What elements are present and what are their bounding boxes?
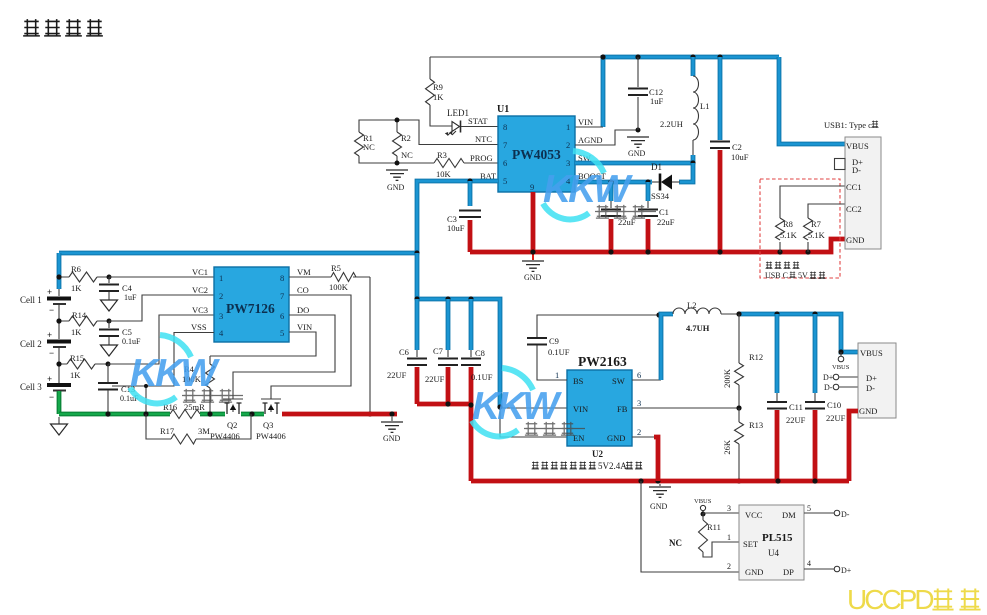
svg-text:C9: C9 <box>549 336 559 346</box>
svg-text:D-: D- <box>841 510 850 519</box>
svg-text:U2: U2 <box>592 449 603 459</box>
svg-text:0.1uF: 0.1uF <box>122 337 141 346</box>
svg-text:7: 7 <box>280 291 284 301</box>
svg-text:22UF: 22UF <box>387 370 407 380</box>
resistor R4 100K <box>209 356 211 414</box>
svg-text:Cell 2: Cell 2 <box>20 339 42 349</box>
svg-text:10uF: 10uF <box>731 152 749 162</box>
svg-text:8: 8 <box>280 273 284 283</box>
svg-text:3: 3 <box>566 158 570 168</box>
wire: LED to STAT pin <box>461 126 498 128</box>
svg-text:C1: C1 <box>659 207 669 217</box>
svg-text:VSS: VSS <box>191 322 207 332</box>
svg-text:1K: 1K <box>71 283 82 293</box>
svg-text:22uF: 22uF <box>657 217 675 227</box>
capacitor C9 0.1UF <box>537 345 567 380</box>
svg-text:1: 1 <box>219 273 223 283</box>
resistor R11 (NC) <box>702 513 704 520</box>
svg-text:R7: R7 <box>811 219 821 229</box>
capacitor C4 1uF <box>108 277 110 283</box>
svg-text:4: 4 <box>807 559 811 568</box>
svg-text:10K: 10K <box>436 169 452 179</box>
svg-text:SS34: SS34 <box>651 191 670 201</box>
svg-text:VBUS: VBUS <box>694 498 712 505</box>
capacitor 22uF (BOOST left) <box>609 182 614 201</box>
svg-text:5V2.4A: 5V2.4A <box>598 461 627 471</box>
wire: DO net to Q2 gate <box>233 315 335 399</box>
svg-text:VBUS: VBUS <box>860 348 883 358</box>
IC PW7126 <box>214 267 289 342</box>
capacitor C8 0.1UF <box>469 299 474 350</box>
svg-text:C8: C8 <box>475 348 485 358</box>
inductor L1 2.2UH <box>691 57 696 76</box>
svg-text:NC: NC <box>669 538 682 548</box>
svg-text:GND: GND <box>846 235 864 245</box>
ground under battery <box>58 417 60 424</box>
svg-text:D+: D+ <box>823 373 834 382</box>
svg-text:Cell 1: Cell 1 <box>20 295 42 305</box>
svg-text:8: 8 <box>503 122 507 132</box>
svg-text:1: 1 <box>727 533 731 542</box>
svg-text:PW7126: PW7126 <box>226 301 275 316</box>
wire: USB2 GND red <box>849 411 858 481</box>
svg-text:PROG: PROG <box>470 153 493 163</box>
transistor Q2 PW4406 <box>223 398 243 400</box>
svg-text:CO: CO <box>297 285 309 295</box>
svg-text:STAT: STAT <box>468 116 488 126</box>
transistor Q3 PW4406 <box>261 398 281 400</box>
wire: NTC net top rail <box>359 120 498 145</box>
ground under R1/R2 <box>386 170 408 180</box>
svg-text:PW2163: PW2163 <box>578 354 627 369</box>
svg-text:L1: L1 <box>700 101 709 111</box>
resistor R9 <box>430 57 452 126</box>
wire: DM out <box>804 512 834 514</box>
svg-text:R13: R13 <box>749 420 763 430</box>
svg-text:2.2UH: 2.2UH <box>660 119 683 129</box>
ground under U1 <box>532 252 534 260</box>
svg-text:−: − <box>49 305 54 315</box>
svg-text:DP: DP <box>783 567 794 577</box>
svg-text:Cell 3: Cell 3 <box>20 382 42 392</box>
svg-text:0.1UF: 0.1UF <box>471 372 493 382</box>
svg-text:GND: GND <box>650 502 668 511</box>
svg-text:R3: R3 <box>437 150 447 160</box>
svg-text:R11: R11 <box>707 522 721 532</box>
svg-text:NC: NC <box>401 150 413 160</box>
svg-text:C11: C11 <box>789 402 803 412</box>
svg-text:D+: D+ <box>841 566 852 575</box>
svg-text:NC: NC <box>363 142 375 152</box>
svg-text:6: 6 <box>280 311 284 321</box>
svg-text:VC1: VC1 <box>192 267 208 277</box>
wire: blue corner to USB1 VBUS <box>779 57 845 144</box>
resistor R8 5.1K <box>780 186 845 252</box>
wire: VC3 <box>108 315 214 364</box>
svg-text:22UF: 22UF <box>826 413 846 423</box>
svg-text:22UF: 22UF <box>425 374 445 384</box>
watermark KKW center <box>472 368 585 436</box>
svg-text:3: 3 <box>219 311 223 321</box>
svg-text:R6: R6 <box>71 264 81 274</box>
wire: battery minus green <box>57 391 62 414</box>
node: top rail junctions <box>600 54 605 59</box>
svg-text:5.1K: 5.1K <box>780 230 798 240</box>
capacitor C2 10uF <box>718 57 723 140</box>
wire: BAT blue from pin5 to battery rail <box>417 181 498 253</box>
svg-text:1K: 1K <box>70 370 81 380</box>
svg-text:GND: GND <box>524 273 542 282</box>
svg-text:+: + <box>47 330 52 340</box>
svg-text:VIN: VIN <box>297 322 312 332</box>
svg-text:1uF: 1uF <box>124 293 137 302</box>
wire: VSS net <box>112 333 214 387</box>
connector USB2 <box>858 343 896 418</box>
svg-text:1K: 1K <box>71 327 82 337</box>
svg-text:D-: D- <box>866 383 875 393</box>
svg-text:5: 5 <box>503 176 507 186</box>
svg-text:5: 5 <box>280 328 284 338</box>
communication resistor dashed box <box>760 179 840 278</box>
svg-text:R8: R8 <box>783 219 793 229</box>
svg-text:FB: FB <box>617 404 628 414</box>
wire: blue from BAT corner down to C6 rail <box>415 253 420 299</box>
svg-text:2: 2 <box>219 291 223 301</box>
ground on pack- red rail <box>391 417 393 421</box>
watermark KKW left <box>130 335 243 403</box>
svg-text:R12: R12 <box>749 352 763 362</box>
resistor R6 1K <box>59 276 109 278</box>
wire: blue drop from top rail to U1 VIN pin <box>601 55 606 127</box>
ground under U2 rail <box>659 484 661 486</box>
wire: top VIN rail thin segment from R9 to VIN node <box>430 56 603 58</box>
svg-text:C10: C10 <box>827 400 841 410</box>
wire: SW rail <box>575 161 693 166</box>
svg-text:EN: EN <box>573 433 584 443</box>
svg-text:9: 9 <box>530 182 534 192</box>
wire: U2 EN tie <box>500 408 567 437</box>
svg-text:2: 2 <box>566 140 570 150</box>
resistor R2 (NC) <box>393 132 402 156</box>
wire: bottom red GND rail <box>471 479 849 484</box>
capacitor C10 22UF <box>813 314 818 393</box>
wire: red rail after Q3 to GND <box>282 412 397 417</box>
svg-text:R2: R2 <box>401 133 411 143</box>
wire: DP out <box>804 568 834 570</box>
svg-text:LED1: LED1 <box>447 108 469 118</box>
capacitor C5 0.1uF <box>108 321 110 328</box>
svg-text:U4: U4 <box>768 548 779 558</box>
svg-text:+: + <box>47 287 52 297</box>
wire: VC2 <box>109 295 214 321</box>
wire: R3 to PROG <box>464 162 498 164</box>
svg-text:22UF: 22UF <box>786 415 806 425</box>
svg-text:3: 3 <box>637 398 641 408</box>
svg-text:GND: GND <box>383 434 401 443</box>
wire: U2 SW up to L2 <box>632 379 661 381</box>
svg-text:Q2: Q2 <box>227 420 237 430</box>
svg-text:+: + <box>47 374 52 384</box>
wire: VBAT blue rail to battery <box>59 251 417 256</box>
wire: U2 FB <box>632 407 739 409</box>
svg-text:D1: D1 <box>651 162 662 172</box>
svg-text:1K: 1K <box>433 92 444 102</box>
IC U4 PL515 <box>739 505 804 580</box>
resistor R14 1K <box>59 320 109 322</box>
svg-text:CC1: CC1 <box>846 182 862 192</box>
svg-text:7: 7 <box>503 140 507 150</box>
svg-text:10uF: 10uF <box>447 223 465 233</box>
wire: SW corner down to D1 anode <box>679 163 693 182</box>
svg-text:C5: C5 <box>122 327 132 337</box>
wire: green pack- rail <box>59 412 170 417</box>
svg-text:VC3: VC3 <box>192 305 208 315</box>
resistor R5 100K <box>289 276 370 278</box>
svg-text:GND: GND <box>745 567 763 577</box>
wire: CO net to Q3 gate <box>271 295 351 399</box>
svg-text:SET: SET <box>743 539 759 549</box>
svg-text:DM: DM <box>782 510 796 520</box>
wire: blue rail over C6/C7/C8 <box>417 299 500 407</box>
svg-text:U1: U1 <box>497 104 509 115</box>
svg-text:AGND: AGND <box>578 135 603 145</box>
svg-text:6: 6 <box>503 158 507 168</box>
ground AGND <box>627 137 649 147</box>
svg-text:GND: GND <box>607 433 625 443</box>
resistor R12 200K <box>738 314 740 408</box>
svg-text:5: 5 <box>807 504 811 513</box>
svg-text:R9: R9 <box>433 82 443 92</box>
svg-text:6: 6 <box>637 370 641 380</box>
svg-text:UCCPD: UCCPD <box>847 584 933 615</box>
svg-text:−: − <box>49 392 54 402</box>
svg-text:CC2: CC2 <box>846 204 862 214</box>
capacitor C3 <box>468 181 473 206</box>
wire: top VIN rail thick blue <box>603 55 779 60</box>
wire: VM net down to pack- rail <box>369 277 371 414</box>
svg-text:1: 1 <box>566 122 570 132</box>
wire: VBUS2 blue rail <box>739 314 858 352</box>
svg-text:3M: 3M <box>198 426 210 436</box>
svg-text:4.7UH: 4.7UH <box>686 323 710 333</box>
svg-text:1: 1 <box>555 370 559 380</box>
svg-text:VCC: VCC <box>745 510 763 520</box>
svg-text:PW4406: PW4406 <box>256 431 286 441</box>
caption 两节锂电池降压5V2.4A电路 <box>532 461 643 471</box>
resistor R17 3M <box>146 414 251 439</box>
svg-text:C7: C7 <box>433 346 443 356</box>
svg-text:2: 2 <box>727 562 731 571</box>
wire: VCC <box>703 512 739 514</box>
capacitor C6 22UF <box>415 299 420 350</box>
wire: U2 VIN <box>500 407 567 409</box>
svg-text:DO: DO <box>297 305 309 315</box>
svg-text:D-: D- <box>852 165 861 175</box>
svg-text:25mR: 25mR <box>184 402 205 412</box>
svg-text:100K: 100K <box>329 282 349 292</box>
svg-text:0.1UF: 0.1UF <box>548 347 570 357</box>
svg-text:VBUS: VBUS <box>832 364 850 371</box>
capacitor C13 0.1uF <box>107 364 109 382</box>
svg-text:VBUS: VBUS <box>846 141 869 151</box>
svg-text:VIN: VIN <box>573 404 588 414</box>
wire: U1 section red GND rail <box>470 239 845 252</box>
svg-text:R17: R17 <box>160 426 174 436</box>
wire: U2 GND drop <box>632 436 654 438</box>
resistor R1 (NC) <box>355 132 364 156</box>
capacitor C11 22UF <box>775 314 780 393</box>
wire: AGND to ground <box>575 130 638 145</box>
resistor R16 25mR <box>170 410 200 419</box>
svg-text:−: − <box>49 348 54 358</box>
D+/D- stub bracket <box>835 159 846 170</box>
svg-text:3: 3 <box>727 504 731 513</box>
wire: red joining C6/C7 into C8 drop <box>417 402 471 407</box>
svg-text:D+: D+ <box>866 373 877 383</box>
node: VIN/EN junction <box>497 404 502 409</box>
svg-text:5.1K: 5.1K <box>808 230 826 240</box>
wire: VC1 <box>109 276 214 278</box>
svg-text:USB C: USB C <box>765 271 788 280</box>
watermark KKW top <box>543 151 656 219</box>
capacitor C1 22uF <box>646 182 651 201</box>
svg-text:PL515: PL515 <box>762 532 793 544</box>
svg-text:GND: GND <box>859 406 877 416</box>
svg-text:VC2: VC2 <box>192 285 208 295</box>
capacitor C12 <box>637 57 639 130</box>
svg-text:C4: C4 <box>122 283 133 293</box>
svg-text:BS: BS <box>573 376 584 386</box>
svg-text:C2: C2 <box>732 142 742 152</box>
svg-text:C6: C6 <box>399 347 409 357</box>
title 附原理图 <box>23 19 103 36</box>
svg-text:R14: R14 <box>72 310 87 320</box>
wire: PL515 GND to rail <box>641 481 739 572</box>
svg-text:26K: 26K <box>722 439 732 455</box>
node: VBUS2 test point <box>840 352 842 356</box>
wire: U1 GND pin to red rail <box>531 192 536 252</box>
resistor R7 5.1K <box>808 204 845 252</box>
svg-text:VIN: VIN <box>578 117 593 127</box>
footer UCCPD forum <box>847 584 981 615</box>
svg-text:GND: GND <box>628 149 646 158</box>
wire: R1/R2 bottom rail to R3 <box>359 156 434 163</box>
svg-text:R5: R5 <box>331 263 341 273</box>
wire: BOOST rail <box>575 180 652 185</box>
svg-text:2: 2 <box>637 427 641 437</box>
svg-text:200K: 200K <box>722 368 732 388</box>
resistor R13 26K <box>738 408 740 481</box>
svg-text:R15: R15 <box>70 353 84 363</box>
resistor R15 1K <box>59 363 108 365</box>
svg-text:5V: 5V <box>798 271 808 280</box>
svg-text:VM: VM <box>297 267 311 277</box>
svg-text:GND: GND <box>387 183 405 192</box>
svg-text:NTC: NTC <box>475 134 492 144</box>
svg-text:Q3: Q3 <box>263 420 273 430</box>
svg-text:D-: D- <box>824 383 833 392</box>
svg-text:1uF: 1uF <box>650 96 664 106</box>
svg-text:USB1: Type c: USB1: Type c <box>824 120 872 130</box>
resistor R3 <box>434 159 464 168</box>
wire: VIN(7126) net to R4 <box>210 332 316 356</box>
svg-text:SW: SW <box>612 376 625 386</box>
svg-text:PW4053: PW4053 <box>512 147 561 162</box>
capacitor C7 22UF <box>446 299 451 350</box>
